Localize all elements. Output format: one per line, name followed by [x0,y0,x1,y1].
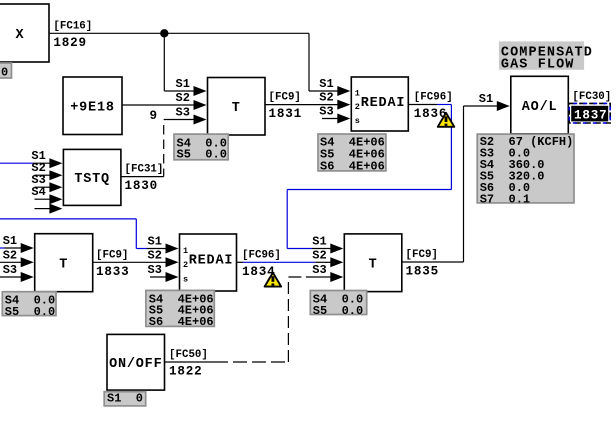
svg-text:1822: 1822 [169,365,202,379]
junction dot on X output [160,29,168,37]
svg-text:s: s [355,116,360,126]
svg-text:2: 2 [355,102,360,112]
value box S4 S5 S6 of REDAI1836 [318,134,386,171]
svg-text:1835: 1835 [406,265,439,279]
svg-text:1830: 1830 [125,179,158,193]
svg-text:S3: S3 [319,105,333,119]
svg-text:S7 0.1: S7 0.1 [480,192,530,206]
svg-text:X: X [16,28,25,43]
svg-text:GAS FLOW: GAS FLOW [501,58,575,73]
svg-text:[FC9]: [FC9] [96,249,128,261]
svg-text:ON/OFF: ON/OFF [109,357,162,372]
svg-text:S1 0: S1 0 [107,392,143,406]
svg-text:1: 1 [355,89,360,99]
svg-text:[FC16]: [FC16] [53,20,92,32]
block TSTQ FC31 1830 [63,149,121,205]
svg-text:S4: S4 [31,185,45,199]
svg-text:9: 9 [150,109,158,123]
svg-text:S3: S3 [176,106,190,120]
svg-text:S1: S1 [479,92,493,106]
svg-text:TSTQ: TSTQ [74,172,110,187]
svg-text:S6 4E+06: S6 4E+06 [149,315,214,329]
block REDAI FC96 1836 [351,77,408,131]
svg-text:s: s [183,275,188,285]
blue wire from left into REDAI1834 S1 [0,218,136,220]
block AO/L FC30 1837 [511,76,569,134]
svg-text:[FC96]: [FC96] [242,249,281,261]
selected value 1837 inverted box with marching ants [571,106,608,122]
svg-text:S3: S3 [148,263,162,277]
svg-text:S1: S1 [319,77,333,91]
warning triangle at 1836 [438,113,455,127]
svg-text:1: 1 [183,246,188,256]
svg-text:REDAI: REDAI [361,96,406,111]
value box S4 S5 of T1835 [310,291,366,315]
svg-text:S2: S2 [319,91,333,105]
svg-text:[FC30]: [FC30] [572,91,611,103]
wire +9E18 output to T1831 S2 [122,104,194,106]
block +9E18 constant [63,77,122,135]
value box S4 S5 of T1831 [174,134,228,160]
block ON/OFF FC50 1822 [107,334,165,390]
svg-text:[FC9]: [FC9] [269,92,301,104]
svg-text:[FC50]: [FC50] [169,349,208,361]
wire from T1835 output up to AO/L S1 [402,261,464,263]
svg-text:[FC96]: [FC96] [414,92,453,104]
title COMPENSATD GAS FLOW [499,41,584,69]
svg-text:S2: S2 [312,248,326,262]
svg-text:S3: S3 [3,263,17,277]
svg-text:1833: 1833 [96,265,129,279]
output wire ON/OFF [FC50] 1822 dashed [165,361,215,363]
svg-text:T: T [232,101,241,116]
svg-text:S5 0.0: S5 0.0 [313,304,363,318]
svg-text:1837: 1837 [574,108,607,122]
svg-text:REDAI: REDAI [189,253,234,268]
svg-text:S3: S3 [312,263,326,277]
svg-text:1831: 1831 [269,107,302,121]
block T FC9 1833 [35,234,93,292]
svg-text:1829: 1829 [53,36,86,50]
wire TSTQ out dashed riser to T1831 S3 [164,119,194,121]
svg-text:AO/L: AO/L [522,100,558,115]
wire junction down to T1831 S1 [163,33,165,91]
svg-text:S6 4E+06: S6 4E+06 [320,159,385,173]
output wire REDAI1834 [FC96] 1834 to T1835 S2 blue [237,261,244,263]
output wire T1831 [FC9] 1831 [265,104,338,106]
wire corner down to REDAI1836 S1 [308,33,310,91]
svg-text:S2: S2 [176,91,190,105]
svg-text:S1 0: S1 0 [0,65,8,79]
block T FC9 1835 [344,234,402,292]
svg-text:[FC31]: [FC31] [125,164,164,176]
value box S1 of X block [0,63,12,78]
wire X output [FC16] [49,32,309,34]
warning triangle at 1834 [265,273,282,287]
block T (transfer) FC9 1831 [208,78,266,136]
svg-text:S2: S2 [3,248,17,262]
output wire REDAI1836 [FC96] 1836 black then blue loop [408,104,437,106]
output wire TSTQ [FC31] 1830 [121,176,164,178]
value box S1 of ON/OFF [104,392,146,406]
pin 5 unlabeled of TSTQ [49,204,62,214]
svg-text:S1: S1 [3,234,17,248]
svg-text:S1: S1 [312,235,326,249]
output wire T1833 [FC9] 1833 to REDAI1834 S2 [93,261,166,263]
svg-text:S5 0.0: S5 0.0 [5,305,55,319]
svg-text:+9E18: +9E18 [70,101,115,116]
svg-text:T: T [59,258,68,273]
value box S4 S5 S6 of REDAI1834 [146,290,214,326]
svg-text:2: 2 [183,260,188,270]
svg-text:S1: S1 [148,235,162,249]
svg-text:S2: S2 [148,248,162,262]
block REDAI FC96 1834 [180,234,237,291]
svg-text:[FC9]: [FC9] [406,249,438,261]
value box S2-S7 of AO/L [477,134,574,203]
svg-text:S1: S1 [176,77,190,91]
block X (multiplier) FC16 [0,4,49,62]
value box S4 S5 of T1833 [2,292,56,316]
svg-text:T: T [369,258,378,273]
svg-text:S5 0.0: S5 0.0 [177,148,227,162]
